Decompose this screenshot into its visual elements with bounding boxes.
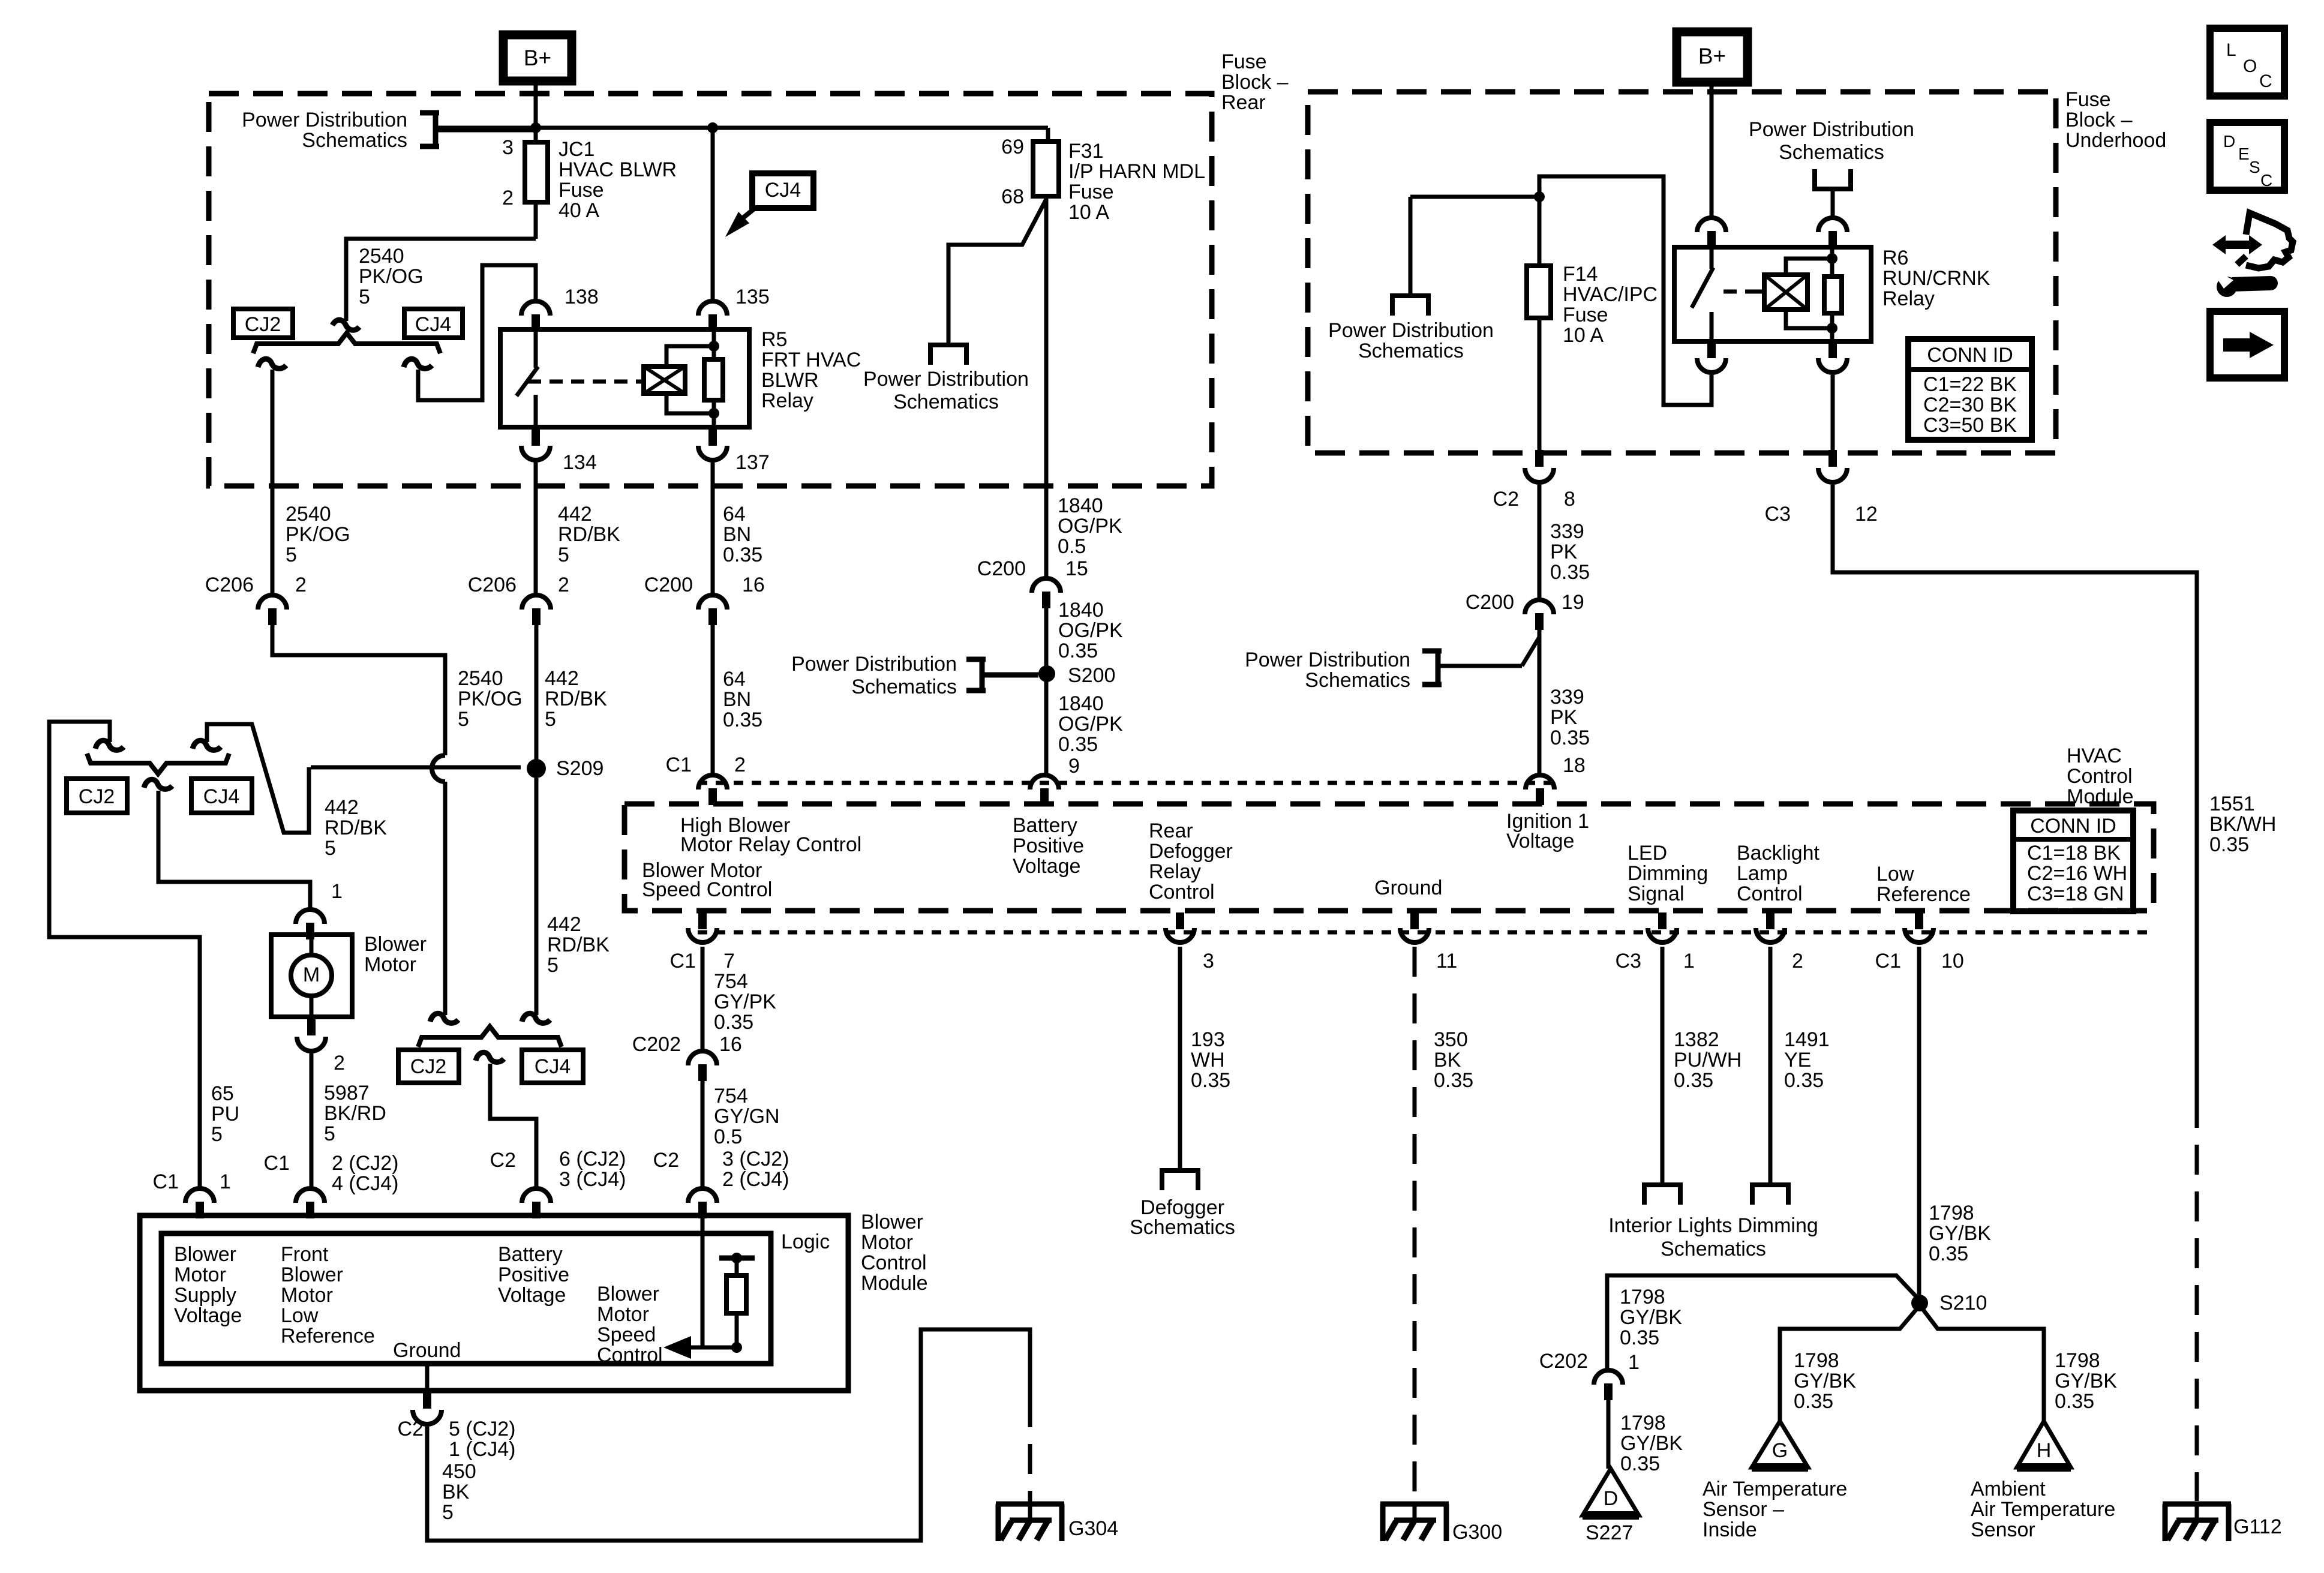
label S209: [556, 757, 603, 780]
label 2 (backlight pin): [1792, 950, 1803, 972]
node junction F14 feed: [1534, 191, 1545, 202]
svg-text:GY/BK: GY/BK: [1929, 1222, 1991, 1245]
label C1 10: [1875, 950, 1964, 972]
label 442 RD/BK 5 (upper): [558, 503, 620, 566]
svg-text:3 (CJ2): 3 (CJ2): [722, 1148, 789, 1170]
svg-text:1382: 1382: [1674, 1028, 1719, 1051]
label 138: [565, 286, 599, 308]
svg-text:5: 5: [545, 708, 556, 731]
wire 1798 to S227: [1607, 1399, 1611, 1469]
icon DESC box: [2210, 122, 2284, 190]
svg-text:BN: BN: [723, 523, 751, 546]
connector 137 (relay R5 pin): [698, 429, 727, 460]
svg-text:BN: BN: [723, 688, 751, 711]
svg-text:1: 1: [220, 1170, 231, 1193]
svg-text:Motor: Motor: [364, 953, 416, 976]
svg-text:C1: C1: [153, 1170, 179, 1193]
svg-text:754: 754: [714, 970, 748, 993]
label HVAC Control Module: [2067, 745, 2134, 808]
wire 1491 YE: [1768, 947, 1773, 1185]
svg-text:Speed: Speed: [597, 1323, 656, 1346]
connector 135 (relay R5 pin): [698, 301, 727, 331]
connector face dotted line (module top C1): [698, 781, 1555, 785]
connector option box CJ4 (first): [404, 309, 463, 338]
wire relay feed 135: [713, 128, 714, 346]
svg-text:193: 193: [1191, 1028, 1225, 1051]
svg-text:Power Distribution: Power Distribution: [1749, 118, 1914, 141]
CONN ID table (underhood): [1908, 339, 2032, 440]
fork interior lights (right): [1750, 1185, 1791, 1205]
svg-text:Schematics: Schematics: [893, 391, 999, 413]
svg-text:Positive: Positive: [498, 1263, 569, 1286]
icon arrow box: [2210, 311, 2284, 378]
svg-text:GY/BK: GY/BK: [2055, 1370, 2117, 1392]
svg-text:442: 442: [558, 503, 592, 526]
svg-text:OG/PK: OG/PK: [1058, 713, 1123, 736]
wire 1551 BK/WH: [1833, 485, 2197, 1098]
svg-text:BLWR: BLWR: [761, 369, 819, 392]
wire S210 to G sensor: [1780, 1309, 1917, 1421]
wire branch to power distribution (diagonal): [948, 199, 1046, 345]
connector 134 (relay R5 pin): [521, 429, 550, 460]
svg-text:Schematics: Schematics: [1130, 1216, 1235, 1239]
svg-text:RD/BK: RD/BK: [325, 816, 387, 839]
relay R6 coil wiring: [1786, 259, 1832, 328]
svg-text:Power Distribution: Power Distribution: [863, 368, 1029, 391]
svg-text:C1=18 BK: C1=18 BK: [2027, 842, 2121, 864]
label C1 2(CJ2) 4(CJ4): [264, 1152, 399, 1195]
svg-text:C200: C200: [977, 557, 1026, 580]
svg-text:C2=16 WH: C2=16 WH: [2027, 862, 2127, 885]
connector C1 pin 7 (module bottom): [688, 912, 717, 942]
wire dashed to G304: [1028, 1397, 1032, 1502]
svg-text:1798: 1798: [2055, 1349, 2100, 1372]
svg-text:C2=30 BK: C2=30 BK: [1923, 394, 2017, 416]
svg-text:PK: PK: [1550, 541, 1578, 563]
svg-text:Motor: Motor: [597, 1303, 649, 1326]
svg-text:10: 10: [1941, 950, 1964, 972]
label C200 16: [644, 574, 765, 596]
connector pin 9 (module): [1030, 775, 1059, 805]
label Power Distribution Schematics (underhood left): [1328, 319, 1494, 362]
wire 64 BN to module: [711, 624, 715, 774]
hook 2540 (battery splice): [430, 1013, 458, 1023]
svg-text:Low: Low: [1876, 863, 1914, 885]
svg-text:0.35: 0.35: [1620, 1452, 1660, 1475]
svg-text:C3=18 GN: C3=18 GN: [2027, 882, 2124, 905]
relay R6 box: [1674, 247, 1871, 341]
connector C202 pin 1: [1594, 1370, 1623, 1400]
Fuse Block - Rear dashed enclosure: [209, 94, 1212, 486]
svg-text:Blower: Blower: [364, 933, 427, 956]
svg-text:0.5: 0.5: [1058, 535, 1086, 558]
svg-text:4 (CJ4): 4 (CJ4): [332, 1172, 398, 1195]
label LED Dimming Signal: [1628, 842, 1708, 905]
label C200 19: [1466, 591, 1584, 614]
label JC1 pins 3/2: [502, 136, 514, 209]
connector pin 2 (module bottom): [1756, 912, 1785, 942]
svg-text:3 (CJ4): 3 (CJ4): [559, 1168, 626, 1191]
svg-text:C1: C1: [670, 950, 696, 972]
svg-text:5987: 5987: [324, 1082, 370, 1104]
node splice S210: [1911, 1295, 1928, 1311]
svg-text:Logic: Logic: [781, 1230, 830, 1253]
fuse JC1 HVAC BLWR 40 A: [525, 96, 548, 239]
wire 442 C206 to S209: [535, 624, 539, 760]
svg-text:G300: G300: [1452, 1521, 1502, 1544]
connector option box CJ2 (second): [67, 779, 127, 813]
svg-text:134: 134: [563, 451, 597, 474]
label F31 pins 69/68: [1001, 136, 1024, 208]
label 350 BK 0.35: [1434, 1028, 1473, 1092]
hook CJ4 (merge structure): [193, 740, 221, 750]
label 2540 PK/OG 5 (in fuse block): [359, 245, 424, 308]
icon service wrench: [2212, 213, 2293, 297]
svg-text:754: 754: [714, 1085, 748, 1107]
svg-text:2: 2: [734, 754, 746, 776]
svg-text:CJ2: CJ2: [410, 1055, 446, 1078]
svg-text:D: D: [1604, 1487, 1619, 1510]
svg-text:C2: C2: [1493, 488, 1519, 511]
connector option box CJ2 (first): [233, 309, 293, 338]
wire 1551 dashed to ground: [2195, 1098, 2199, 1501]
label 754 GY/GN 0.5: [714, 1085, 780, 1148]
svg-text:0.35: 0.35: [2209, 833, 2249, 856]
svg-text:11: 11: [1436, 950, 1457, 972]
svg-text:C1=22 BK: C1=22 BK: [1923, 373, 2017, 396]
connector module pin C1-2/4: [296, 1188, 325, 1218]
label 2540 PK/OG 5 (below C206): [286, 503, 350, 566]
relay R5 coil wiring: [666, 346, 714, 413]
wire 2540 down to battery splice: [443, 782, 448, 1015]
svg-text:Motor Relay Control: Motor Relay Control: [680, 833, 861, 856]
label Blower Motor Control Module: [861, 1211, 928, 1295]
option brace (merge structure): [87, 754, 229, 774]
svg-text:C3=50 BK: C3=50 BK: [1923, 414, 2017, 437]
svg-text:Inside: Inside: [1703, 1518, 1757, 1541]
svg-text:2540: 2540: [458, 667, 503, 690]
label F31 I/P HARN MDL Fuse 10 A: [1068, 140, 1205, 224]
svg-text:Voltage: Voltage: [1506, 830, 1574, 852]
connector C206 pin 2 (middle): [522, 595, 551, 625]
svg-text:68: 68: [1001, 185, 1024, 208]
relay R6 switch: [1692, 247, 1713, 341]
svg-text:Ground: Ground: [1374, 876, 1442, 899]
label S200: [1068, 664, 1115, 687]
svg-text:0.35: 0.35: [2055, 1390, 2094, 1413]
svg-text:10 A: 10 A: [1563, 324, 1604, 347]
svg-text:Backlight: Backlight: [1737, 842, 1820, 864]
connector C200 pin 16: [698, 595, 727, 625]
label 1840 OG/PK 0.35 (above S200): [1058, 599, 1123, 662]
label 135: [735, 286, 770, 308]
hook output (merge structure): [144, 779, 172, 789]
label C206 2 (middle): [468, 574, 569, 596]
label C2 5(CJ2) 1(CJ4): [398, 1418, 516, 1461]
CONN ID table (HVAC module): [2013, 810, 2133, 911]
svg-text:Control: Control: [1737, 882, 1803, 905]
label Low Reference: [1876, 863, 1971, 906]
Power Distribution Schematics bracket (at S200): [966, 659, 1038, 691]
wire B+ power bus: [436, 126, 1048, 130]
svg-text:0.35: 0.35: [1674, 1069, 1713, 1092]
label 5987 BK/RD 5: [324, 1082, 386, 1145]
svg-text:2: 2: [295, 574, 307, 596]
svg-text:19: 19: [1562, 591, 1584, 614]
svg-text:Interior Lights Dimming: Interior Lights Dimming: [1608, 1214, 1818, 1237]
label Battery Positive Voltage (module): [1013, 814, 1084, 878]
svg-text:GY/PK: GY/PK: [714, 990, 776, 1013]
svg-text:6 (CJ2): 6 (CJ2): [559, 1148, 626, 1170]
splice tilde on wire 2540: [332, 320, 359, 330]
wire 193 WH to defogger: [1178, 947, 1182, 1170]
svg-text:C3: C3: [1765, 503, 1791, 526]
svg-text:C: C: [2260, 171, 2272, 190]
svg-text:Reference: Reference: [1876, 883, 1971, 906]
connector option box CJ2 (third): [398, 1050, 459, 1083]
fork to Power Distribution Schematics (under F31): [928, 345, 969, 365]
label Logic: [781, 1230, 830, 1253]
label 1382 PU/WH 0.35: [1674, 1028, 1742, 1092]
label C1 1 (module pin): [153, 1170, 231, 1193]
label JC1 HVAC BLWR Fuse 40 A: [559, 138, 677, 222]
svg-text:40 A: 40 A: [559, 199, 599, 222]
svg-text:0.35: 0.35: [1191, 1069, 1230, 1092]
svg-text:137: 137: [735, 451, 770, 474]
svg-text:CJ4: CJ4: [415, 313, 451, 336]
option merge structure 2 left path: [49, 722, 200, 1187]
option brace splice (first): [253, 333, 440, 353]
svg-text:1798: 1798: [1929, 1202, 1974, 1224]
connector module pin C2-6/3: [522, 1188, 551, 1218]
svg-text:Dimming: Dimming: [1628, 862, 1708, 885]
svg-text:C206: C206: [468, 574, 517, 596]
connector option box CJ4 (second): [191, 779, 252, 813]
svg-text:Blower: Blower: [174, 1243, 236, 1266]
svg-text:5: 5: [286, 544, 297, 566]
svg-text:GY/BK: GY/BK: [1620, 1432, 1683, 1455]
node resistor bottom: [731, 1342, 742, 1353]
svg-text:S227: S227: [1586, 1521, 1633, 1544]
svg-text:PK: PK: [1550, 706, 1578, 729]
battery positive B+ terminal (underhood): [1677, 32, 1747, 82]
label 2 (blower pin): [334, 1052, 345, 1074]
connector C1 pin 10 (module bottom): [1905, 912, 1933, 942]
svg-text:S200: S200: [1068, 664, 1115, 687]
svg-text:0.35: 0.35: [1434, 1069, 1473, 1092]
label 11: [1436, 950, 1457, 972]
svg-text:2: 2: [558, 574, 569, 596]
svg-text:Power Distribution: Power Distribution: [1328, 319, 1494, 342]
svg-text:1: 1: [1628, 1351, 1640, 1374]
wire 2540 jog right: [272, 624, 445, 755]
wire merge output to blower pin 1: [158, 791, 310, 908]
Power Distribution Schematics reference bracket (rear block): [420, 113, 536, 146]
svg-text:C202: C202: [1539, 1350, 1588, 1373]
bmcm speed control resistor: [719, 1253, 755, 1347]
svg-text:BK/RD: BK/RD: [324, 1102, 386, 1125]
svg-text:Battery: Battery: [1013, 814, 1077, 837]
svg-text:5: 5: [325, 837, 336, 860]
node junction at JC1 fuse: [530, 122, 541, 133]
svg-text:0.5: 0.5: [714, 1125, 742, 1148]
relay R6 coil actuation dashes: [1724, 290, 1764, 294]
label Blower Motor Speed Control (module): [642, 859, 772, 901]
svg-text:442: 442: [325, 796, 359, 819]
svg-text:PK/OG: PK/OG: [286, 523, 350, 546]
sensor terminator G: [1752, 1421, 1808, 1467]
node junction at relay feed: [707, 122, 718, 133]
label Ground (module): [1374, 876, 1442, 899]
svg-text:C206: C206: [205, 574, 254, 596]
svg-text:PU: PU: [211, 1103, 239, 1125]
svg-text:1491: 1491: [1784, 1028, 1830, 1051]
fuse F14 HVAC/IPC 10 A: [1527, 266, 1551, 318]
ground G112: [2163, 1502, 2282, 1541]
svg-text:1 (CJ4): 1 (CJ4): [449, 1438, 515, 1461]
svg-text:16: 16: [719, 1033, 742, 1056]
relay R5 resistor: [704, 346, 723, 429]
svg-text:B+: B+: [1698, 44, 1726, 68]
wire to power distribution fork (underhood): [1410, 197, 1539, 296]
label 18: [1563, 754, 1586, 777]
label Power Distribution Schematics (rear block): [242, 109, 407, 152]
node splice S209: [527, 759, 546, 778]
wire battery positive to module: [490, 1064, 536, 1187]
connector face dotted line (module bottom): [698, 930, 2151, 935]
hook 442 (battery splice): [522, 1013, 550, 1023]
blower motor control module outer box: [140, 1215, 848, 1391]
label 450 BK 5: [442, 1460, 476, 1524]
svg-text:339: 339: [1550, 520, 1584, 543]
label 339 PK 0.35 (lower): [1550, 686, 1590, 749]
svg-text:0.35: 0.35: [714, 1011, 753, 1034]
svg-text:2 (CJ2): 2 (CJ2): [332, 1152, 398, 1175]
label 1 (blower pin): [331, 880, 343, 903]
svg-text:Control: Control: [597, 1344, 663, 1367]
label C206 2 (left): [205, 574, 307, 596]
svg-text:Control: Control: [1149, 881, 1215, 903]
svg-text:Rear: Rear: [1149, 819, 1193, 842]
connector blower motor pin 2: [297, 1019, 326, 1051]
svg-text:F14: F14: [1563, 263, 1598, 286]
svg-text:Fuse: Fuse: [1068, 181, 1114, 203]
label 1798 GY/BK 0.35 (C202 branch): [1620, 1286, 1682, 1349]
svg-text:0.35: 0.35: [1058, 640, 1098, 662]
label Defogger Schematics: [1130, 1196, 1235, 1239]
relay R6 coil: [1757, 275, 1807, 310]
relay R5 coil: [637, 367, 685, 394]
svg-text:G: G: [1772, 1439, 1788, 1462]
svg-text:Air Temperature: Air Temperature: [1971, 1498, 2115, 1521]
svg-text:2540: 2540: [359, 245, 404, 268]
svg-text:S209: S209: [556, 757, 603, 780]
svg-text:5: 5: [211, 1123, 223, 1146]
svg-text:Sensor: Sensor: [1971, 1518, 2035, 1541]
svg-text:PK/OG: PK/OG: [458, 688, 523, 710]
svg-text:O: O: [2243, 56, 2257, 76]
svg-text:16: 16: [742, 574, 765, 596]
svg-text:H: H: [2037, 1439, 2052, 1462]
svg-text:OG/PK: OG/PK: [1058, 515, 1122, 538]
label Fuse Block - Rear: [1221, 50, 1289, 114]
label 754 GY/PK 0.35: [714, 970, 776, 1034]
svg-text:Fuse: Fuse: [2065, 88, 2111, 111]
wire 1840 to S200: [1044, 607, 1049, 774]
svg-text:2: 2: [502, 187, 514, 209]
label R5 FRT HVAC BLWR Relay: [761, 328, 861, 412]
svg-text:0.35: 0.35: [1620, 1326, 1659, 1349]
svg-text:Blower: Blower: [861, 1211, 923, 1233]
label 1798 GY/BK 0.35 (above S210): [1929, 1202, 1991, 1265]
label C200 15: [977, 557, 1088, 580]
label 1798 GY/BK 0.35 (S227): [1620, 1412, 1683, 1475]
connector C202 pin 16: [688, 1051, 717, 1081]
wire 754 GY/PK from HVAC module: [701, 947, 705, 1050]
connector module pin C1-1: [185, 1188, 214, 1218]
label 1840 OG/PK 0.5: [1058, 494, 1122, 558]
label 339 PK 0.35 (upper): [1550, 520, 1590, 584]
relay R6 resistor: [1824, 247, 1842, 341]
svg-text:M: M: [303, 963, 320, 986]
wire S210 to H sensor: [1923, 1309, 2044, 1421]
svg-text:WH: WH: [1191, 1049, 1225, 1071]
svg-text:BK/WH: BK/WH: [2209, 813, 2276, 836]
hook output (battery splice): [476, 1052, 504, 1062]
label 1798 GY/BK 0.35 (G branch): [1794, 1349, 1856, 1413]
svg-text:CJ2: CJ2: [79, 785, 115, 808]
svg-text:PK/OG: PK/OG: [359, 265, 424, 288]
svg-text:Voltage: Voltage: [498, 1284, 566, 1307]
svg-text:339: 339: [1550, 686, 1584, 709]
label High Blower Motor Relay Control: [680, 814, 861, 856]
label 64 BN 0.35 (lower): [723, 668, 762, 731]
label 442 RD/BK 5 (right of wire): [545, 667, 607, 731]
svg-text:C202: C202: [632, 1033, 681, 1056]
svg-text:10 A: 10 A: [1068, 201, 1109, 224]
wire 65 PU labels: [211, 1082, 239, 1146]
fork Power Distribution (underhood left): [1390, 296, 1431, 316]
svg-text:Underhood: Underhood: [2065, 129, 2166, 152]
svg-text:Control: Control: [2067, 765, 2133, 788]
label C2 3(CJ2) 2(CJ4): [653, 1148, 789, 1191]
svg-text:0.35: 0.35: [1550, 727, 1590, 749]
connector R6 coil bottom pin: [1818, 341, 1847, 373]
svg-text:1798: 1798: [1620, 1286, 1665, 1308]
svg-text:S: S: [2249, 158, 2260, 176]
svg-text:Speed Control: Speed Control: [642, 878, 772, 901]
svg-text:RUN/CRNK: RUN/CRNK: [1882, 267, 1990, 290]
svg-text:8: 8: [1564, 488, 1575, 511]
svg-text:18: 18: [1563, 754, 1586, 777]
label 193 WH 0.35: [1191, 1028, 1230, 1092]
wire B+ to relay R6: [1710, 82, 1714, 217]
label R6 RUN/CRNK Relay: [1882, 247, 1990, 310]
svg-text:5: 5: [458, 708, 469, 731]
svg-text:L: L: [2226, 40, 2236, 60]
svg-text:Control: Control: [861, 1251, 927, 1274]
svg-text:Fuse: Fuse: [1221, 50, 1267, 73]
connector C3 pin 1 (module bottom): [1648, 912, 1677, 942]
label Power Distribution Schematics (under F31): [863, 368, 1029, 413]
svg-text:1840: 1840: [1058, 494, 1103, 517]
wire 64 BN from 137: [711, 463, 715, 594]
svg-text:5: 5: [547, 954, 559, 977]
svg-text:C200: C200: [644, 574, 693, 596]
svg-text:64: 64: [723, 668, 746, 691]
wire hop 2540 over 442: [432, 755, 445, 782]
wire 1798 low reference: [1917, 947, 1921, 1295]
